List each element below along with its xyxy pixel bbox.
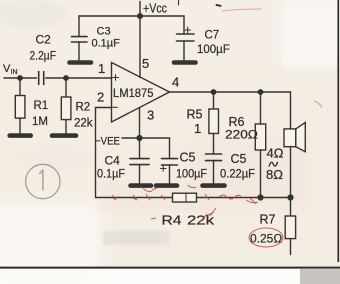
resistor R2: [61, 78, 71, 133]
svg-text:22k: 22k: [74, 118, 93, 130]
svg-text:3: 3: [147, 108, 154, 123]
label R6: [229, 115, 245, 129]
label 4 ohm: [267, 146, 284, 161]
label VIN: [3, 63, 18, 76]
svg-text:5: 5: [142, 56, 149, 71]
node dot bottom R7: [287, 194, 293, 200]
capacitor C2: [39, 72, 44, 85]
label C5 0.22uF: [231, 152, 247, 166]
border line bottom: [0, 267, 340, 269]
wire pin3 to -VEE node: [139, 108, 141, 139]
ground under R2: [52, 133, 76, 138]
svg-text:+Vcc: +Vcc: [143, 2, 167, 16]
pin 3: [147, 108, 154, 123]
label +Vcc: [143, 2, 167, 16]
label LM1875: [113, 86, 154, 100]
value C4 0.1uF: [97, 169, 125, 181]
red circle around 0.25 ohm: [249, 228, 283, 247]
svg-text:4: 4: [172, 75, 179, 90]
svg-text:4Ω: 4Ω: [267, 146, 284, 161]
value C3 0.1uF: [92, 38, 121, 50]
svg-text:1: 1: [194, 121, 201, 136]
ground under C5 100uF: [156, 183, 177, 188]
node dot -VEE: [136, 135, 142, 141]
value R7 0.25 ohm: [250, 232, 282, 246]
svg-text:R4: R4: [162, 213, 182, 228]
svg-text:R7: R7: [260, 213, 276, 227]
capacitor C4: [130, 138, 149, 183]
wire -VEE rail: [140, 138, 170, 158]
svg-text:220Ω: 220Ω: [225, 128, 258, 142]
value R6 220 ohm: [225, 128, 258, 142]
ground under R1: [10, 133, 31, 138]
svg-text:0.25Ω: 0.25Ω: [250, 232, 282, 246]
svg-text:0.1µF: 0.1µF: [92, 38, 121, 50]
wire R4 to output node: [197, 197, 291, 199]
svg-text:C7: C7: [205, 30, 220, 42]
svg-text:C5: C5: [180, 151, 196, 165]
label tilde: [269, 162, 278, 167]
label C7: [205, 30, 220, 42]
label R4: [162, 213, 182, 228]
wire +Vcc top rail: [79, 15, 184, 17]
pin 4: [172, 75, 179, 90]
svg-text:IN: IN: [11, 69, 18, 76]
red scribble under C5 ground: [188, 185, 196, 188]
resistor R5: [209, 92, 219, 154]
label R7: [260, 213, 276, 227]
wire +Vcc stub: [139, 2, 141, 17]
value R5 1: [194, 121, 201, 136]
svg-text:100µF: 100µF: [176, 169, 207, 181]
node dot input right: [63, 75, 69, 81]
node dot input left: [17, 75, 23, 81]
op-amp U1 LM1875: [112, 63, 170, 123]
border line right: [337, 0, 339, 262]
red annotation marks: [112, 9, 283, 247]
wire pin5 supply: [139, 16, 141, 78]
value C5 0.22uF: [220, 167, 255, 181]
capacitor C7: [177, 16, 195, 60]
value C7 100uF: [197, 44, 230, 56]
resistor R6: [255, 92, 265, 198]
label C3: [97, 26, 111, 38]
node dot output R6: [258, 89, 264, 95]
svg-text:2.2µF: 2.2µF: [30, 49, 57, 63]
ground under C7: [174, 60, 196, 65]
ground under C4: [131, 183, 152, 188]
svg-text:0.1µF: 0.1µF: [97, 169, 125, 181]
node dot output R5: [211, 89, 217, 95]
svg-text:C4: C4: [105, 154, 121, 168]
label C5 100uF: [180, 151, 196, 165]
red slash through R4 22k: [151, 208, 216, 223]
resistor R1: [15, 78, 25, 133]
value C5 100uF: [176, 169, 207, 181]
wire -VEE stub: [122, 137, 140, 139]
label R1: [34, 100, 49, 112]
resistor R4: [173, 193, 197, 202]
node dot bottom R6: [257, 194, 263, 200]
label C2: [36, 33, 52, 47]
ground under C5 0.22uF: [203, 183, 225, 188]
svg-text:1M: 1M: [32, 116, 48, 128]
pin 5: [142, 56, 149, 71]
capacitor C3: [72, 16, 88, 60]
svg-text:C5: C5: [231, 152, 247, 166]
value R4 22k: [187, 213, 215, 228]
value R2 22k: [74, 118, 93, 130]
ground under C3: [70, 60, 92, 65]
svg-text:C3: C3: [97, 26, 111, 38]
value R1 1M: [32, 116, 48, 128]
label R2: [76, 102, 91, 114]
svg-text:R5: R5: [187, 108, 203, 122]
svg-text:R1: R1: [34, 100, 49, 112]
pin 1: [98, 61, 105, 76]
svg-text:R2: R2: [76, 102, 91, 114]
svg-text:1: 1: [98, 61, 105, 76]
capacitor C5 100uF: [161, 159, 178, 183]
label R5: [187, 108, 203, 122]
value C2 2.2uF: [30, 49, 57, 63]
wire feedback bottom: [96, 197, 173, 199]
red tick marks on feedback wire: [112, 194, 258, 204]
pencil mark right margin: [314, 101, 322, 108]
wire input: [4, 77, 37, 79]
label C4: [105, 154, 121, 168]
svg-text:0.22µF: 0.22µF: [220, 167, 255, 181]
tick mark top edge: [178, 0, 180, 5]
speaker LS1: [284, 92, 305, 198]
svg-text:LM1875: LM1875: [113, 86, 154, 100]
svg-text:2: 2: [97, 90, 104, 105]
node dot +Vcc: [137, 13, 143, 19]
svg-text:100µF: 100µF: [197, 44, 230, 56]
dot mark right of +Vcc: [217, 4, 221, 7]
svg-text:8Ω: 8Ω: [266, 167, 283, 182]
wire inverting input pin2: [96, 108, 112, 198]
label 8 ohm: [266, 167, 283, 182]
pin 2: [97, 90, 104, 105]
red scribble under C4 ground: [143, 188, 157, 192]
figure number circle 1: [26, 164, 60, 198]
svg-text:−VEE: −VEE: [95, 136, 120, 148]
label -VEE: [95, 136, 120, 148]
svg-text:C2: C2: [36, 33, 52, 47]
capacitor C5 0.22uF: [206, 154, 222, 183]
resistor R7: [285, 198, 295, 255]
wire input to opamp: [46, 77, 112, 79]
wire output: [170, 91, 291, 93]
faint red line near top: [222, 9, 262, 11]
